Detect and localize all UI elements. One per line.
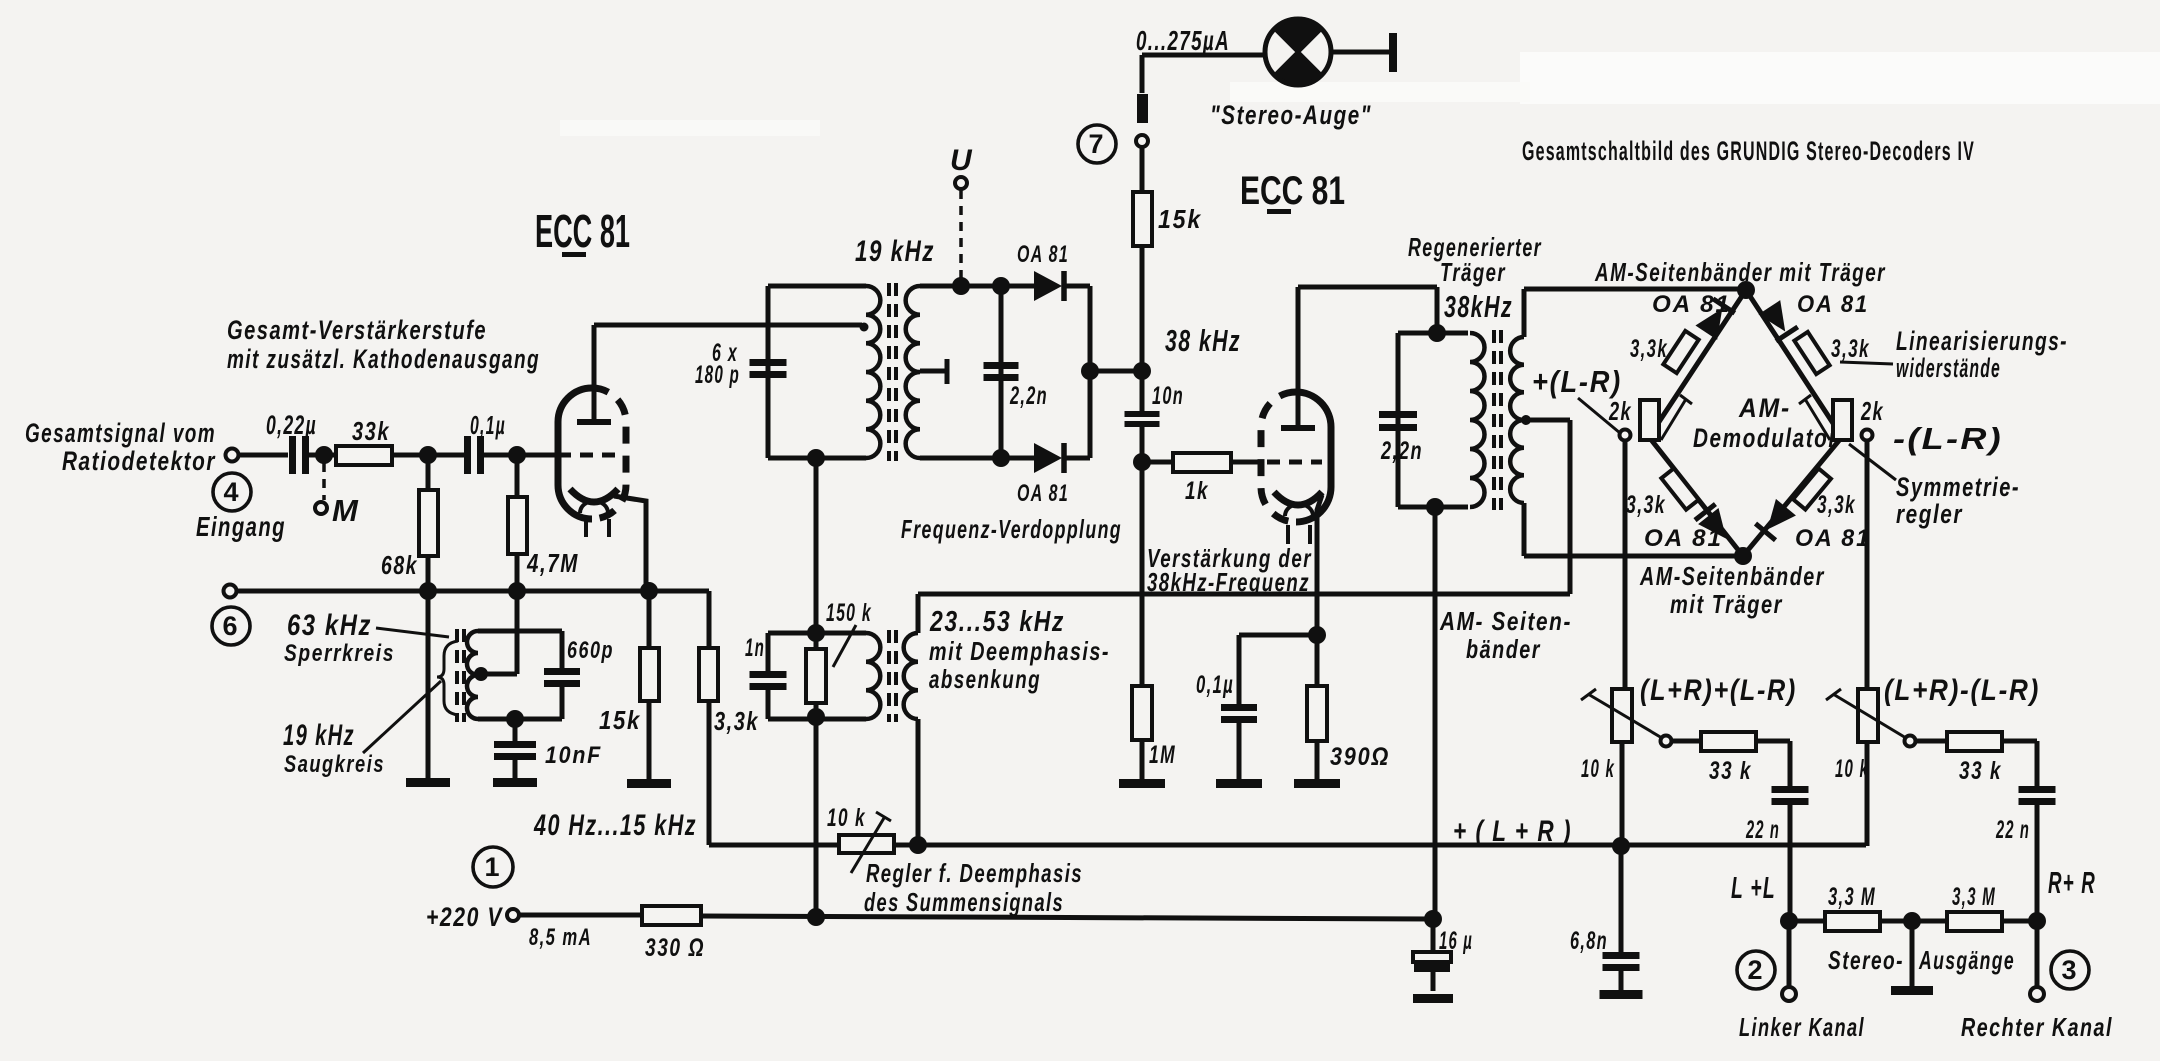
svg-text:22 n: 22 n [1995,816,2030,844]
svg-text:6: 6 [222,611,239,641]
svg-text:R+ R: R+ R [2048,865,2096,900]
svg-text:(L+R)-(L-R): (L+R)-(L-R) [1884,674,2040,707]
svg-text:390Ω: 390Ω [1330,743,1390,771]
svg-text:widerstände: widerstände [1896,353,2001,383]
svg-text:3,3k: 3,3k [1630,335,1668,363]
svg-text:19 kHz: 19 kHz [283,719,355,752]
svg-text:(L+R)+(L-R): (L+R)+(L-R) [1640,674,1797,707]
svg-text:-(L-R): -(L-R) [1893,421,2003,456]
svg-text:3,3 M: 3,3 M [1952,883,1996,911]
svg-text:3,3k: 3,3k [1831,335,1870,363]
svg-text:OA 81: OA 81 [1644,525,1723,552]
svg-text:Ausgänge: Ausgänge [1918,945,2015,975]
svg-text:Gesamtschaltbild des GRUNDIG S: Gesamtschaltbild des GRUNDIG Stereo-Deco… [1522,136,1975,166]
svg-text:10 k: 10 k [827,804,866,832]
svg-text:15k: 15k [599,705,641,735]
svg-text:0,22µ: 0,22µ [266,410,317,440]
svg-text:0,1µ: 0,1µ [470,410,506,440]
svg-text:+ ( L + R ): + ( L + R ) [1453,815,1572,848]
svg-text:Linker Kanal: Linker Kanal [1739,1012,1865,1042]
svg-text:150 k: 150 k [826,599,872,627]
svg-text:1M: 1M [1149,741,1176,769]
svg-text:des Summensignals: des Summensignals [864,887,1064,917]
svg-text:M: M [332,493,360,528]
svg-text:absenkung: absenkung [929,664,1041,694]
svg-text:Frequenz-Verdopplung: Frequenz-Verdopplung [901,514,1122,544]
svg-text:2,2n: 2,2n [1009,382,1048,410]
svg-text:Regler f. Deemphasis: Regler f. Deemphasis [866,858,1083,888]
svg-text:3: 3 [2061,955,2078,985]
svg-text:"Stereo-Auge": "Stereo-Auge" [1210,100,1372,130]
svg-text:3,3 M: 3,3 M [1828,883,1876,911]
svg-text:33 k: 33 k [1709,757,1752,785]
svg-text:3,3k: 3,3k [1626,491,1666,519]
svg-text:L +L: L +L [1731,870,1776,905]
svg-text:Linearisierungs-: Linearisierungs- [1896,326,2068,356]
svg-text:330 Ω: 330 Ω [645,934,705,962]
svg-text:Stereo-: Stereo- [1828,945,1904,975]
svg-text:2k: 2k [1860,396,1884,426]
svg-text:19 kHz: 19 kHz [855,235,935,268]
svg-text:40 Hz...15 kHz: 40 Hz...15 kHz [533,809,697,842]
svg-text:3,3k: 3,3k [714,706,759,736]
svg-text:OA 81: OA 81 [1017,241,1069,268]
svg-text:1n: 1n [745,634,765,662]
svg-text:10n: 10n [1152,382,1184,410]
svg-text:2: 2 [1747,955,1764,985]
svg-text:mit zusätzl. Kathodenausgang: mit zusätzl. Kathodenausgang [227,344,540,374]
svg-text:180 p: 180 p [695,361,740,389]
svg-text:2k: 2k [1608,396,1632,426]
svg-text:+220 V: +220 V [426,902,503,932]
svg-text:Träger: Träger [1440,257,1506,287]
svg-text:AM-Seitenbänder mit Träger: AM-Seitenbänder mit Träger [1594,257,1886,287]
svg-text:1: 1 [484,852,501,882]
svg-text:660p: 660p [567,637,614,664]
svg-text:38 kHz: 38 kHz [1165,323,1241,358]
svg-text:Sperrkreis: Sperrkreis [284,640,395,667]
svg-text:mit Träger: mit Träger [1670,589,1783,619]
svg-text:4,7M: 4,7M [526,548,579,578]
svg-text:38kHz: 38kHz [1444,289,1513,324]
svg-text:63 kHz: 63 kHz [287,609,372,642]
svg-text:1k: 1k [1185,477,1209,505]
svg-text:bänder: bänder [1466,634,1541,664]
svg-text:68k: 68k [381,550,418,580]
svg-text:22 n: 22 n [1745,816,1780,844]
svg-text:Rechter Kanal: Rechter Kanal [1961,1012,2113,1042]
svg-text:Eingang: Eingang [196,511,286,542]
svg-text:Saugkreis: Saugkreis [284,751,385,778]
svg-text:regler: regler [1896,499,1963,529]
svg-text:7: 7 [1088,129,1105,159]
svg-text:mit Deemphasis-: mit Deemphasis- [929,636,1110,666]
svg-text:2,2n: 2,2n [1380,437,1423,465]
svg-text:Demodulator: Demodulator [1693,423,1838,453]
svg-text:0...275µA: 0...275µA [1136,25,1230,56]
svg-text:8,5 mA: 8,5 mA [529,924,592,951]
svg-text:15k: 15k [1158,204,1202,234]
svg-text:AM-: AM- [1738,393,1791,423]
svg-text:Gesamtsignal vom: Gesamtsignal vom [25,418,216,448]
svg-text:6,8n: 6,8n [1570,927,1608,955]
svg-text:10 k: 10 k [1835,755,1869,783]
svg-text:23...53 kHz: 23...53 kHz [929,606,1065,638]
svg-text:ECC 81: ECC 81 [535,205,630,257]
svg-text:Ratiodetektor: Ratiodetektor [62,446,216,476]
svg-text:0,1µ: 0,1µ [1196,671,1234,699]
svg-text:Gesamt-Verstärkerstufe: Gesamt-Verstärkerstufe [227,315,487,345]
svg-text:33k: 33k [352,416,390,446]
svg-text:16 µ: 16 µ [1439,927,1473,955]
svg-text:Symmetrie-: Symmetrie- [1896,472,2020,502]
svg-text:OA 81: OA 81 [1797,291,1869,318]
svg-text:10nF: 10nF [545,742,602,769]
svg-text:3,3k: 3,3k [1817,491,1856,519]
svg-text:OA 81: OA 81 [1652,291,1731,318]
svg-text:AM- Seiten-: AM- Seiten- [1439,606,1572,636]
svg-text:33 k: 33 k [1959,757,2002,785]
svg-text:OA 81: OA 81 [1017,480,1069,507]
svg-text:U: U [950,144,974,177]
svg-text:4: 4 [223,477,240,507]
svg-text:OA 81: OA 81 [1795,525,1871,552]
svg-text:10 k: 10 k [1581,755,1615,783]
svg-text:AM-Seitenbänder: AM-Seitenbänder [1639,561,1825,591]
svg-text:ECC 81: ECC 81 [1240,169,1345,213]
svg-text:+(L-R): +(L-R) [1532,364,1622,399]
